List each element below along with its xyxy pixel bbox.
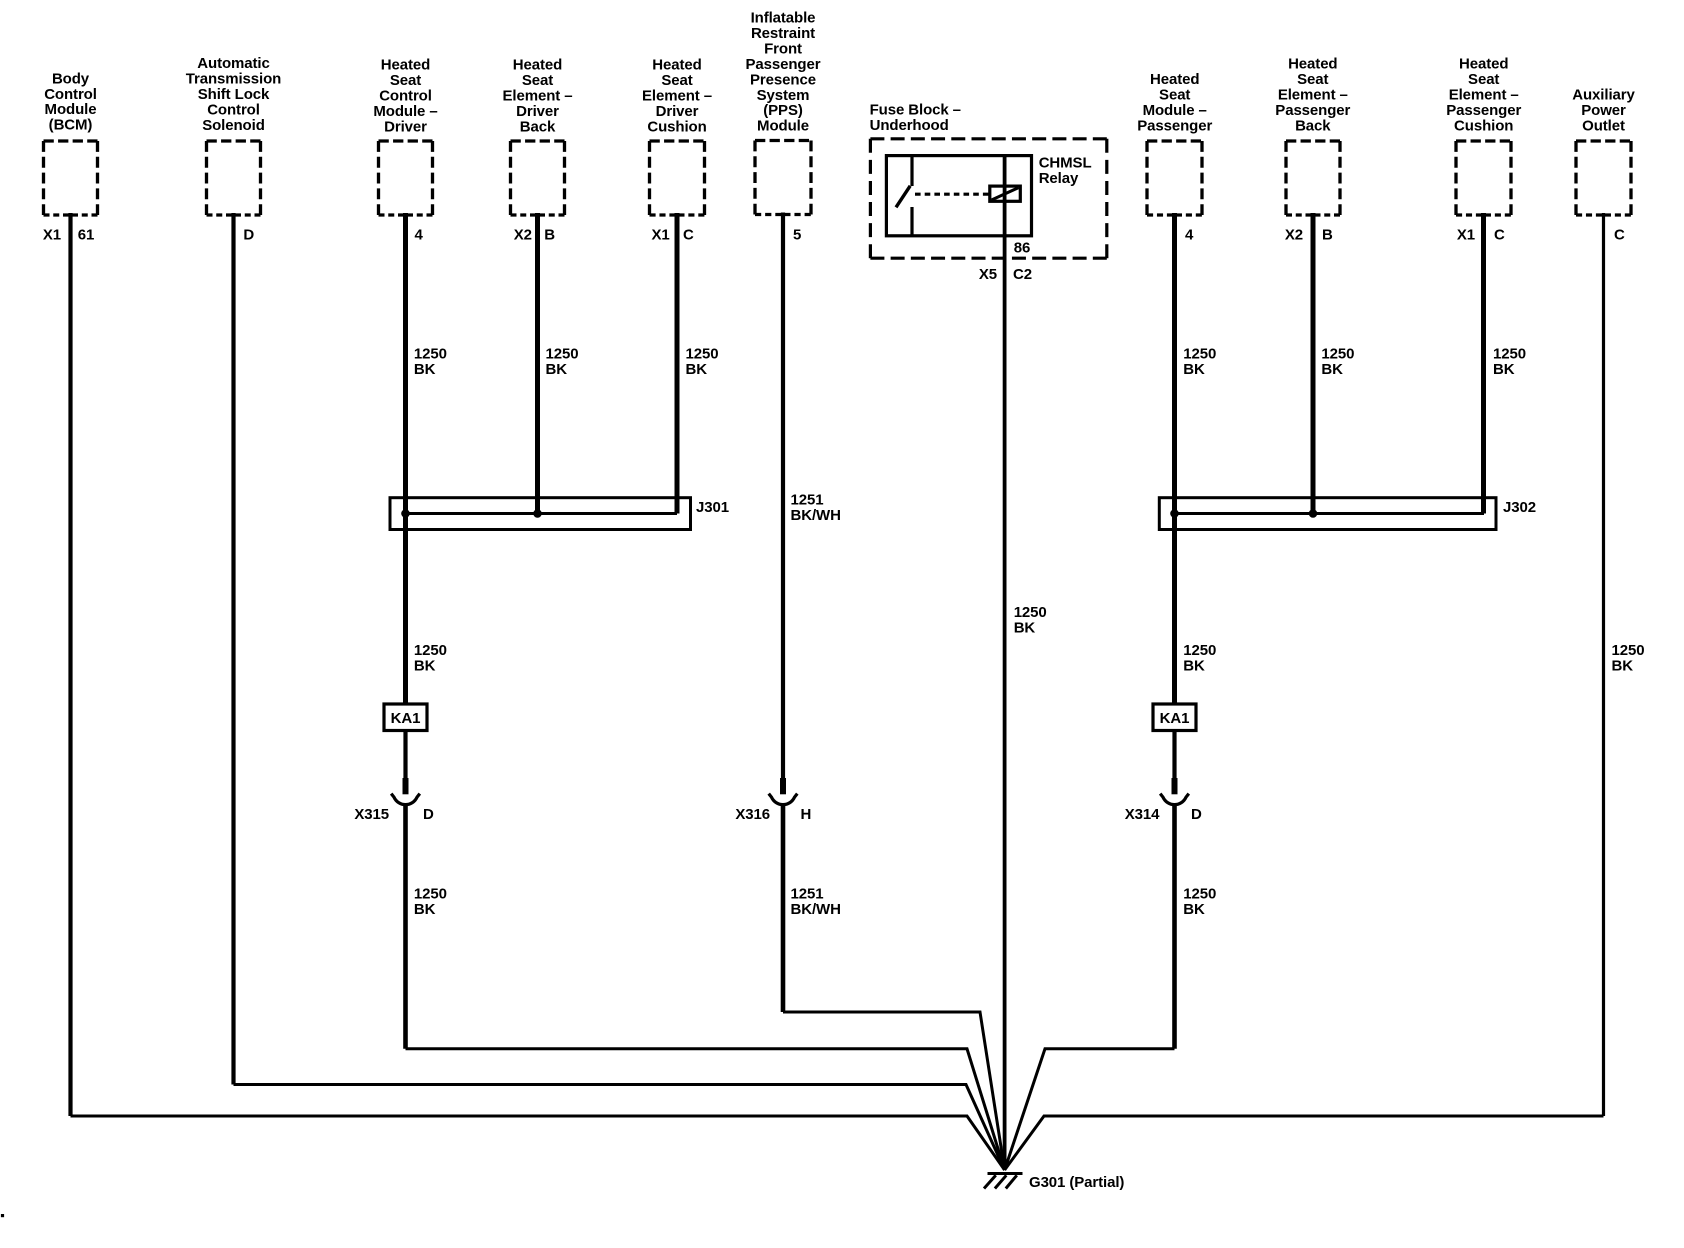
wire: PPS ground run <box>783 1012 1005 1170</box>
svg-text:AuxiliaryPowerOutlet: AuxiliaryPowerOutlet <box>1572 87 1635 135</box>
connector box: Auxiliary Power Outlet <box>1576 141 1631 215</box>
connector X316 male terminal <box>780 778 786 794</box>
svg-text:86: 86 <box>1014 240 1031 257</box>
svg-text:HeatedSeatElement –PassengerCu: HeatedSeatElement –PassengerCushion <box>1446 56 1521 135</box>
svg-text:D: D <box>1191 806 1202 823</box>
svg-text:G301 (Partial): G301 (Partial) <box>1029 1174 1124 1191</box>
connector X316 female cup <box>769 794 798 805</box>
svg-text:1250: 1250 <box>546 346 579 363</box>
splice pack J301 box <box>390 498 691 530</box>
wire: BCM pin 61 vertical <box>68 213 72 1116</box>
wire: driver seat ground run <box>406 1049 1005 1170</box>
svg-text:X315: X315 <box>354 806 389 823</box>
svg-text:X2: X2 <box>514 227 532 244</box>
svg-text:J302: J302 <box>1503 499 1536 516</box>
relay coil diagonal <box>992 188 1019 200</box>
svg-text:X1: X1 <box>651 227 669 244</box>
wire: PPS pin 5 down to X316 <box>781 213 785 781</box>
svg-text:4: 4 <box>1185 227 1194 244</box>
svg-text:HeatedSeatElement –PassengerBa: HeatedSeatElement –PassengerBack <box>1275 56 1350 135</box>
svg-text:HeatedSeatElement –DriverBack: HeatedSeatElement –DriverBack <box>503 57 573 136</box>
svg-text:X316: X316 <box>735 806 770 823</box>
svg-text:1250: 1250 <box>686 346 719 363</box>
connector X315 female cup <box>391 794 420 805</box>
wire: HSCM driver pin 4 to J301 <box>403 213 408 514</box>
svg-text:1250: 1250 <box>1183 346 1216 363</box>
svg-text:X314: X314 <box>1125 806 1160 823</box>
svg-text:HeatedSeatModule –Passenger: HeatedSeatModule –Passenger <box>1137 71 1212 134</box>
in-line connector code box KA1 (passenger) <box>1153 704 1196 731</box>
svg-text:BK: BK <box>414 361 436 378</box>
connector box: PPS Module <box>755 141 811 215</box>
svg-text:KA1: KA1 <box>1160 710 1190 727</box>
relay coil box <box>990 186 1021 201</box>
svg-text:X1: X1 <box>1457 227 1475 244</box>
svg-text:4: 4 <box>415 227 424 244</box>
svg-text:CHMSLRelay: CHMSLRelay <box>1039 155 1092 188</box>
svg-text:1250: 1250 <box>1014 604 1047 621</box>
svg-text:X2: X2 <box>1285 227 1303 244</box>
svg-text:BK: BK <box>1321 361 1343 378</box>
svg-text:InflatableRestraintFrontPassen: InflatableRestraintFrontPassengerPresenc… <box>746 10 821 135</box>
svg-text:5: 5 <box>793 227 801 244</box>
wire: J302 to KA1 passenger <box>1172 514 1177 705</box>
wire: solenoid pin D vertical <box>231 213 235 1085</box>
connector box: Heated Seat Control Module - Driver <box>379 141 433 215</box>
connector X314 male terminal <box>1172 778 1178 794</box>
in-line connector code box KA1 (driver) <box>384 704 427 731</box>
svg-text:1250: 1250 <box>414 886 447 903</box>
svg-text:1250: 1250 <box>1493 346 1526 363</box>
svg-text:J301: J301 <box>696 499 729 516</box>
wire: solenoid ground run <box>234 1085 1005 1171</box>
svg-text:AutomaticTransmissionShift Loc: AutomaticTransmissionShift LockControlSo… <box>186 55 282 134</box>
svg-text:HeatedSeatControlModule –Drive: HeatedSeatControlModule –Driver <box>373 57 437 136</box>
svg-text:Fuse Block –Underhood: Fuse Block –Underhood <box>870 101 961 133</box>
svg-text:C: C <box>1494 227 1505 244</box>
wire: X315 down to bottom run <box>403 804 408 1049</box>
svg-text:BK: BK <box>1493 361 1515 378</box>
svg-text:HeatedSeatElement –DriverCushi: HeatedSeatElement –DriverCushion <box>642 57 712 136</box>
relay switch top stub (pin 30 side) <box>910 156 913 186</box>
svg-text:1251: 1251 <box>791 492 824 509</box>
svg-text:X5: X5 <box>979 266 997 283</box>
svg-text:61: 61 <box>78 227 95 244</box>
connector X315 male terminal <box>403 778 409 794</box>
wire: driver back element to J301 <box>535 213 540 514</box>
splice pack J302 box <box>1159 498 1496 530</box>
wire: J301 to KA1 driver <box>403 514 408 705</box>
connector box: Heated Seat Element - Passenger Cushion <box>1456 141 1511 215</box>
svg-text:BK/WH: BK/WH <box>791 901 841 918</box>
connector box: Heated Seat Element - Passenger Back <box>1286 141 1340 215</box>
stray dot bottom left <box>1 1214 4 1217</box>
CHMSL relay outline box <box>886 156 1031 236</box>
fuse block - underhood dashed outline <box>870 139 1106 258</box>
svg-text:1250: 1250 <box>1321 346 1354 363</box>
svg-text:BK: BK <box>1183 361 1205 378</box>
svg-text:BK: BK <box>546 361 568 378</box>
svg-text:BK: BK <box>414 657 436 674</box>
svg-text:1250: 1250 <box>414 346 447 363</box>
wire: passenger cushion element to J302 <box>1481 213 1486 514</box>
svg-text:D: D <box>423 806 434 823</box>
svg-text:BK: BK <box>1612 657 1634 674</box>
svg-text:BK: BK <box>1183 901 1205 918</box>
svg-text:B: B <box>544 227 555 244</box>
wire: X316 down to bottom run <box>781 804 786 1013</box>
J301 internal bus wire <box>406 512 678 515</box>
svg-text:H: H <box>801 806 812 823</box>
connector box: A/T Shift Lock Control Solenoid <box>207 141 261 215</box>
connector box: Heated Seat Module - Passenger <box>1147 141 1202 215</box>
ground symbol G301 <box>984 1174 1023 1189</box>
relay switch blade (movable contact) <box>896 186 910 208</box>
wire: passenger seat ground run <box>1005 1049 1175 1170</box>
wire: driver cushion element to J301 <box>675 213 680 514</box>
junction dot J301-A <box>401 509 410 518</box>
svg-text:C2: C2 <box>1013 266 1032 283</box>
wire: HSM passenger pin 4 to J302 <box>1172 213 1177 514</box>
svg-text:BK: BK <box>1183 657 1205 674</box>
J302 internal bus wire <box>1175 512 1485 515</box>
svg-text:BK: BK <box>686 361 708 378</box>
svg-text:D: D <box>243 227 254 244</box>
svg-text:BodyControlModule(BCM): BodyControlModule(BCM) <box>44 70 97 133</box>
junction dot J302-A <box>1170 509 1179 518</box>
svg-text:BK/WH: BK/WH <box>791 507 841 524</box>
wire: KA1 driver to X315 male pin <box>403 731 407 780</box>
svg-text:BK: BK <box>1014 619 1036 636</box>
relay actuation dashed link <box>915 193 989 196</box>
junction dot J301-B <box>533 509 542 518</box>
relay switch bottom stub <box>910 207 913 236</box>
wire: aux outlet pin C vertical <box>1602 213 1605 1116</box>
svg-text:C: C <box>683 227 694 244</box>
wire: passenger back element to J302 <box>1311 213 1316 514</box>
wire: BCM ground run <box>71 1116 1005 1170</box>
wire: KA1 passenger to X314 male pin <box>1172 731 1176 780</box>
svg-text:B: B <box>1322 227 1333 244</box>
connector box: Body Control Module (BCM) <box>44 141 98 215</box>
connector box: Heated Seat Element - Driver Back <box>511 141 565 215</box>
svg-text:KA1: KA1 <box>391 710 421 727</box>
connector X314 female cup <box>1160 794 1189 805</box>
svg-text:1251: 1251 <box>791 886 824 903</box>
wire: relay coil pin 86 down to G301 <box>1003 156 1007 1170</box>
svg-text:X1: X1 <box>43 227 61 244</box>
svg-text:C: C <box>1614 227 1625 244</box>
wire: X314 down to bottom run <box>1172 804 1177 1049</box>
svg-text:BK: BK <box>414 901 436 918</box>
connector box: Heated Seat Element - Driver Cushion <box>650 141 705 215</box>
junction dot J302-B <box>1309 509 1318 518</box>
svg-text:1250: 1250 <box>1183 886 1216 903</box>
wire: aux outlet ground run <box>1005 1116 1604 1170</box>
